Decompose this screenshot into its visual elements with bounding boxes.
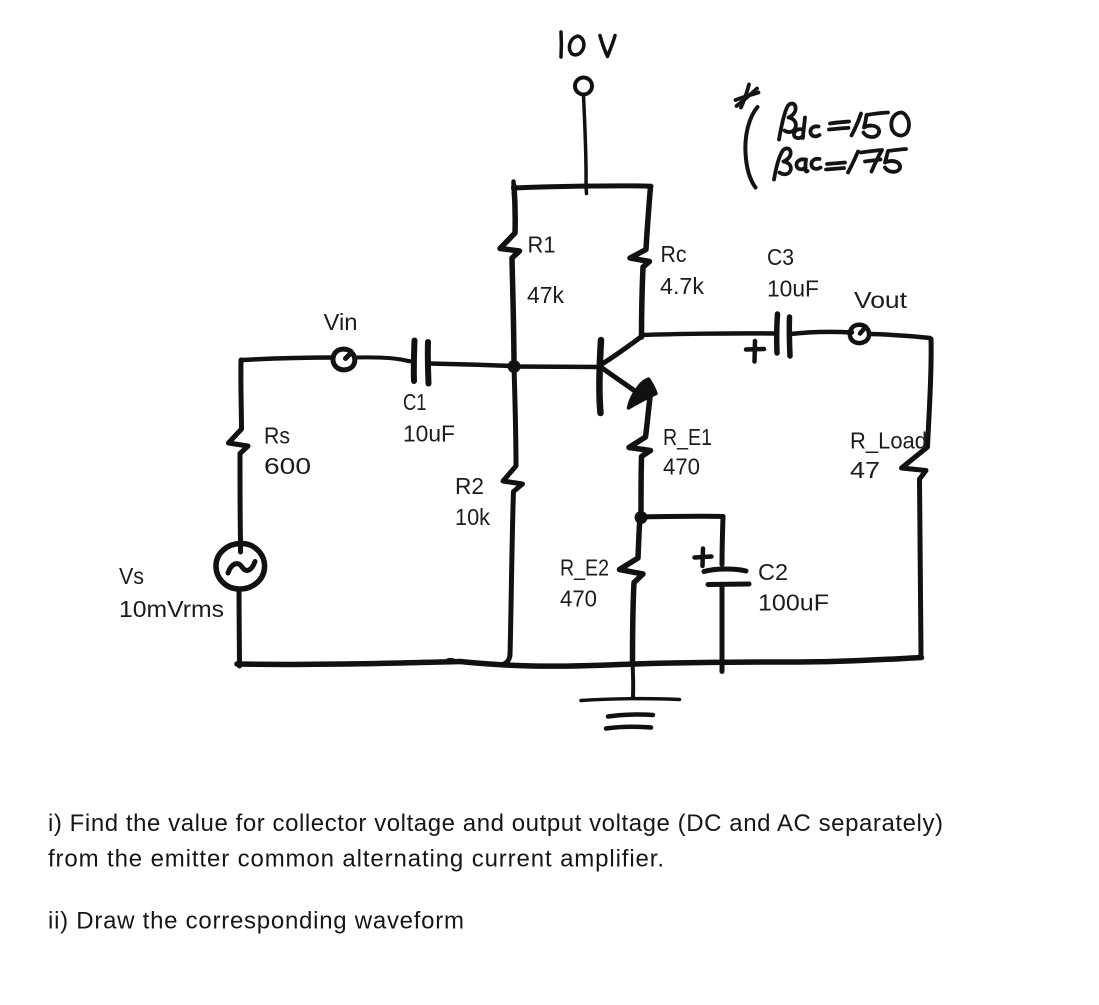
svg-text:4.7k: 4.7k	[660, 273, 704, 299]
svg-text:C3: C3	[767, 244, 794, 270]
svg-text:C1: C1	[403, 389, 427, 415]
svg-text:Rs: Rs	[264, 423, 290, 449]
svg-text:Vin: Vin	[324, 309, 358, 335]
svg-text:10uF: 10uF	[767, 276, 819, 302]
svg-text:100uF: 100uF	[758, 590, 829, 616]
svg-text:from the emitter common altern: from the emitter common alternating curr…	[48, 846, 664, 873]
svg-text:600: 600	[264, 453, 311, 479]
svg-text:ii) Draw the corresponding wav: ii) Draw the corresponding waveform	[48, 908, 464, 935]
svg-text:10k: 10k	[455, 504, 490, 530]
svg-text:47k: 47k	[527, 282, 564, 308]
svg-text:C2: C2	[758, 559, 788, 585]
svg-text:Vs: Vs	[119, 563, 144, 589]
svg-text:47: 47	[850, 457, 880, 483]
svg-text:R1: R1	[528, 232, 556, 258]
svg-text:R2: R2	[455, 473, 484, 499]
svg-text:i) Find the value for collecto: i) Find the value for collector voltage …	[48, 810, 943, 837]
svg-text:R_E1: R_E1	[663, 424, 712, 450]
svg-text:R_E2: R_E2	[560, 555, 609, 581]
svg-text:470: 470	[663, 454, 700, 480]
svg-text:Rc: Rc	[661, 241, 687, 267]
svg-text:10uF: 10uF	[403, 421, 455, 447]
svg-text:R_Load: R_Load	[850, 428, 927, 454]
svg-text:470: 470	[560, 586, 597, 612]
svg-text:10mVrms: 10mVrms	[119, 596, 224, 622]
svg-text:Vout: Vout	[854, 287, 908, 313]
